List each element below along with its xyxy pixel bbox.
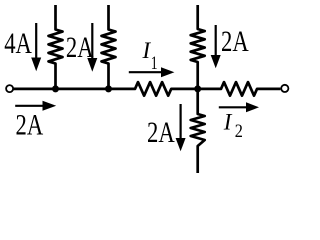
svg-text:2A: 2A bbox=[221, 24, 249, 58]
svg-text:2: 2 bbox=[235, 120, 243, 141]
svg-text:2A: 2A bbox=[66, 30, 94, 64]
svg-text:2A: 2A bbox=[147, 115, 175, 149]
svg-text:I: I bbox=[223, 110, 233, 135]
svg-text:2A: 2A bbox=[16, 107, 44, 141]
svg-text:4A: 4A bbox=[4, 26, 32, 60]
svg-text:1: 1 bbox=[151, 52, 158, 74]
